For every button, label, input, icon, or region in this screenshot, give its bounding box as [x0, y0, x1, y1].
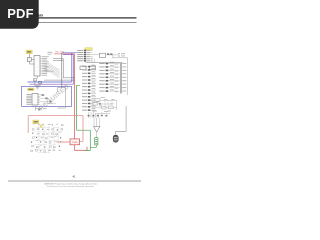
gate U703 [93, 103, 97, 105]
svg-text:PDF: PDF [7, 6, 34, 21]
net labels (gray) [48, 51, 53, 54]
transistor bank label Q301 [33, 120, 39, 124]
wire [44, 79, 75, 81]
vibration motor M701 [113, 135, 118, 142]
wire to fuse [57, 141, 69, 143]
wire [35, 76, 40, 87]
capacitor C602 [45, 98, 47, 100]
header thick rule [8, 17, 137, 18]
net label text [44, 69, 49, 72]
wire (dark vertical) [61, 53, 63, 88]
wire [29, 60, 34, 65]
shield can outline [58, 88, 66, 109]
wire blue to top block [72, 52, 77, 54]
amplifier (triangle) [94, 126, 101, 132]
regulator U501 label [85, 48, 92, 51]
drops extra [102, 112, 107, 115]
more specks [96, 101, 100, 104]
resistor R704 [99, 103, 101, 105]
gate U702 [95, 99, 100, 102]
wire drops [89, 110, 99, 118]
inductor L501 [100, 53, 106, 57]
wire to motor [116, 106, 126, 135]
text specks [101, 96, 106, 99]
wire [28, 54, 30, 58]
capacitor C503 [80, 66, 86, 70]
wire fuse output (red steps) [75, 145, 87, 150]
gate wires vertical [105, 100, 112, 107]
wire SDA (blue) [28, 53, 72, 82]
connector pin labels [122, 63, 126, 92]
wire [93, 55, 119, 58]
wire [40, 95, 56, 104]
wire VBAT (pink) [54, 53, 75, 55]
wire collectors [92, 57, 95, 63]
svg-text:SAMSUNG Proprietary-Contents m: SAMSUNG Proprietary-Contents may change … [44, 182, 98, 185]
matrix wires vertical [39, 126, 59, 154]
wire (pink right drop) [80, 116, 84, 142]
passives row [88, 115, 90, 117]
wire stub below box [36, 106, 43, 110]
bus ribbon [45, 63, 60, 78]
IC U601 body [32, 94, 38, 106]
crystal X101 [27, 58, 31, 62]
IC U601 pins [26, 94, 40, 105]
ground [36, 87, 39, 89]
wire (pink left drop) [27, 116, 29, 134]
svg-text:41: 41 [72, 175, 76, 179]
svg-text:F400: F400 [72, 142, 78, 144]
wire amp to battery [95, 132, 97, 137]
wire VBUS (pink horizontal) [28, 115, 83, 117]
IC U101 label [26, 50, 32, 54]
pin labels [121, 52, 125, 55]
matrix wires [33, 128, 60, 153]
PDF badge [0, 0, 39, 29]
wire bus [53, 59, 75, 78]
net flag (yellow) [40, 125, 42, 127]
capacitor C605 [38, 109, 40, 111]
module box (blue) [22, 86, 72, 106]
resistor array rows (lower mid column) [82, 65, 96, 111]
svg-text:VBAT_PWR: VBAT_PWR [55, 51, 65, 54]
IC U101 pins [40, 56, 49, 75]
battery B701 (green) [95, 138, 98, 145]
logic cluster wires [90, 100, 117, 113]
key matrix cluster [31, 123, 64, 152]
IC U601 label [28, 88, 34, 91]
footer rule [8, 180, 141, 183]
capacitor C601 [42, 94, 44, 96]
capacitor C502 [110, 53, 112, 55]
capacitor C105 [33, 79, 36, 81]
pin ticks [118, 54, 120, 56]
capacitor C106 [39, 81, 42, 83]
header thin rule [8, 21, 137, 24]
resistor R703 [109, 106, 114, 109]
passives row extra [101, 115, 103, 116]
divider wire [86, 62, 123, 64]
capacitor C501 [107, 53, 109, 55]
resistor R702 [102, 106, 107, 109]
wire DET (green) [77, 85, 91, 150]
IC U101 body [34, 56, 40, 77]
wire VPH (red vertical) [74, 54, 76, 139]
wire battery stubs (green) [90, 145, 96, 148]
connector CON501 [120, 63, 121, 94]
wires to amp [94, 118, 99, 126]
net name [49, 70, 54, 73]
wire SCL (purple) [30, 55, 74, 85]
fuse F400 [70, 139, 80, 145]
value text [43, 107, 47, 110]
capacitor C504 [90, 66, 96, 70]
shield outline [112, 58, 128, 95]
resistor row array R501-R506 [77, 50, 92, 62]
resistor array rows (right column) [99, 62, 119, 92]
resistor R601 [49, 101, 51, 103]
